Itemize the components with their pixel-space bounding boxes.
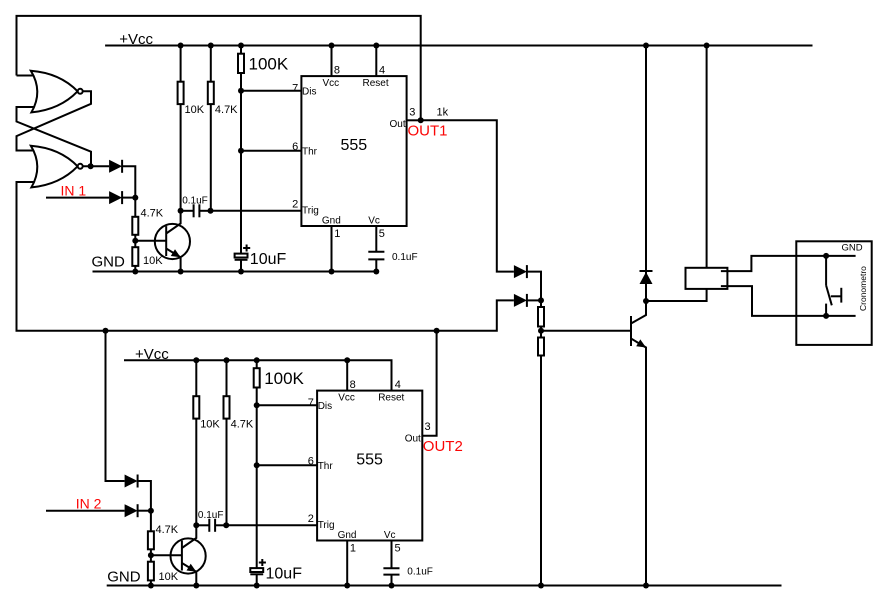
svg-text:6: 6 <box>308 455 314 467</box>
junction divider/gnd (right) <box>538 583 544 589</box>
wire OUT2 riser <box>422 331 436 436</box>
svg-text:IN 1: IN 1 <box>61 182 87 198</box>
junction OUT2 riser/latch line <box>434 328 440 334</box>
svg-text:2: 2 <box>292 199 298 211</box>
svg-text:8: 8 <box>350 379 356 391</box>
svg-text:5: 5 <box>395 542 401 554</box>
capacitor 10uF (top) polarized <box>235 245 251 260</box>
resistor 4.7K (bottom Vcc to trig) <box>224 396 230 418</box>
svg-text:0.1uF: 0.1uF <box>407 566 433 577</box>
wire Q2 base <box>151 554 182 556</box>
svg-text:GND: GND <box>842 242 863 253</box>
resistor 4.7K (Q1 base upper) <box>132 217 138 235</box>
wire divider vertical <box>540 300 542 585</box>
wire D4 to divider node <box>527 299 541 301</box>
junction rail/pin4 <box>373 43 379 49</box>
wire pin5 Vc (top) <box>375 226 377 252</box>
capacitor 10uF (bottom) polarized <box>250 559 266 574</box>
svg-text:OUT1: OUT1 <box>408 123 448 140</box>
junction pin5 cap/gnd rail (bottom) <box>389 583 395 589</box>
junction Q1 emitter/gnd <box>178 269 184 275</box>
junction rail/pin8 (bottom) <box>344 357 350 363</box>
wire 4.7K (top) vertical <box>210 46 212 211</box>
junction pin1/gnd rail (bottom) <box>344 583 350 589</box>
junction Dis/100K <box>238 88 244 94</box>
svg-text:GND: GND <box>92 254 126 271</box>
wire IN 2 input line <box>46 510 125 512</box>
svg-text:+Vcc: +Vcc <box>119 31 153 48</box>
resistor 4.7K (top Vcc to trig) <box>208 82 214 104</box>
wire pin6 Thr (bottom) <box>257 464 317 466</box>
wire pin5 cap to gnd (bottom) <box>391 575 393 586</box>
wire gnd rail (bottom) <box>107 585 782 587</box>
transistor Q1 collector <box>166 211 180 234</box>
junction rail/10K <box>178 43 184 49</box>
transistor Q3 emitter <box>631 339 646 586</box>
resistor 100K (top timing) <box>238 54 244 73</box>
svg-text:10K: 10K <box>185 104 205 116</box>
svg-text:8: 8 <box>334 64 340 76</box>
resistor 10K (Q2 base lower) <box>148 562 154 581</box>
svg-text:OUT2: OUT2 <box>423 438 463 455</box>
svg-text:1k: 1k <box>437 107 449 119</box>
junction collector/cap/10K <box>178 208 184 214</box>
wire gate U1B input B from OUT2 line <box>17 182 514 331</box>
svg-text:Trig: Trig <box>318 520 335 531</box>
svg-text:1: 1 <box>334 228 340 240</box>
svg-text:10K: 10K <box>159 571 179 583</box>
transistor Q1 emitter <box>166 249 180 272</box>
svg-text:3: 3 <box>409 107 415 119</box>
junction pin5 cap/gnd rail <box>373 269 379 275</box>
svg-text:Reset: Reset <box>363 78 389 89</box>
svg-text:555: 555 <box>356 451 383 468</box>
junction cap/trig/4.7K (bottom) <box>223 522 229 528</box>
svg-text:GND: GND <box>107 568 141 585</box>
wire 4.7K (bottom) vertical <box>226 360 228 525</box>
transistor Q3 emitter arrow <box>636 339 646 347</box>
resistor 100K (bottom timing) <box>254 368 260 387</box>
resistor 10K (Q1 base lower) <box>132 247 138 266</box>
wire gate U1A input A stub <box>17 75 37 77</box>
svg-text:6: 6 <box>292 141 298 153</box>
pushbutton actuator bar <box>840 288 842 303</box>
svg-text:5: 5 <box>379 228 385 240</box>
junction pin1/gnd rail <box>329 269 335 275</box>
wire gnd rail (top) <box>93 271 377 273</box>
svg-text:Vcc: Vcc <box>323 78 340 89</box>
junction D3/D4/R node <box>538 297 544 303</box>
diode D7 flyback (vertical) <box>640 271 653 284</box>
svg-text:100K: 100K <box>264 369 304 388</box>
svg-text:4.7K: 4.7K <box>156 524 179 536</box>
svg-text:Vcc: Vcc <box>338 392 355 403</box>
diode D1 (gate U1B output) <box>109 160 122 173</box>
wire flyback diode vertical <box>645 46 647 302</box>
wire relay contact upper <box>721 256 856 271</box>
wire pin4 Reset (top) <box>375 46 377 77</box>
wire +Vcc rail (top) <box>105 45 812 47</box>
wire pin2 Trig (bottom) <box>226 524 317 526</box>
svg-text:Vc: Vc <box>368 215 380 226</box>
junction 10K divider/gnd (top) <box>132 269 138 275</box>
wire latch line down to D5 <box>106 331 125 481</box>
svg-text:4: 4 <box>395 379 401 391</box>
wire D5 to IN2 node <box>138 481 151 511</box>
wire pin3 Out stub (top) <box>407 119 421 121</box>
svg-text:3: 3 <box>425 421 431 433</box>
transistor Q2 emitter arrow <box>187 564 197 572</box>
svg-text:+Vcc: +Vcc <box>135 346 169 363</box>
junction Dis/100K (bottom) <box>254 402 260 408</box>
wire pin2 Trig (top) <box>211 210 302 212</box>
wire 100K vertical (bottom) <box>256 360 258 568</box>
junction rail/100K <box>238 43 244 49</box>
wire cap right to trig <box>199 210 210 212</box>
wire IN 1 input line <box>46 197 109 199</box>
junction cap/trig/4.7K <box>208 208 214 214</box>
wire coil top to +Vcc <box>706 46 708 268</box>
junction Q3 emitter/gnd <box>643 583 649 589</box>
wire U1B output to diode D1 <box>83 165 109 167</box>
nor gate U1B <box>31 146 83 188</box>
transistor Q1 circle <box>155 224 190 259</box>
svg-text:7: 7 <box>308 397 314 409</box>
wire pin5 cap to gnd <box>375 259 377 271</box>
capacitor 0.1uF (top pin5) plates <box>368 252 384 260</box>
wire pin7 Dis (bottom) <box>257 404 317 406</box>
resistor 10K (bottom Vcc to collector) <box>193 396 199 418</box>
wire cap left to collector node (bottom) <box>196 524 209 526</box>
wire pin6 Thr (top) <box>241 150 301 152</box>
svg-text:0.1uF: 0.1uF <box>392 252 418 263</box>
junction U1B output node <box>88 163 94 169</box>
junction rail/pin8 <box>329 43 335 49</box>
diode D5 (latch feed) <box>125 475 138 488</box>
svg-text:Thr: Thr <box>302 146 318 157</box>
svg-text:IN 2: IN 2 <box>76 496 102 512</box>
pushbutton actuator <box>831 295 842 297</box>
svg-text:4.7K: 4.7K <box>141 208 164 220</box>
svg-text:Vc: Vc <box>384 530 396 541</box>
wire pin1 Gnd (top) <box>331 226 333 272</box>
junction Q2 base node <box>148 552 154 558</box>
svg-text:Trig: Trig <box>302 205 319 216</box>
junction rail/10K (bottom) <box>193 357 199 363</box>
svg-text:1: 1 <box>350 542 356 554</box>
nor gate U1A <box>31 71 83 113</box>
wire gate U1B output to U1A input B (cross-couple) <box>17 107 92 166</box>
transistor Q2 base bar <box>181 541 183 571</box>
junction Q1 base node <box>132 238 138 244</box>
junction collector/cap/10K (bottom) <box>193 522 199 528</box>
wire pin8 Vcc (bottom) <box>346 360 348 390</box>
svg-text:100K: 100K <box>249 55 289 74</box>
wire pin1 Gnd (bottom) <box>346 541 348 586</box>
wire coil bottom feed <box>646 289 707 301</box>
junction flyback/coil/collector <box>643 298 649 304</box>
wire node to R divider <box>134 198 136 272</box>
wire 10K pullup (bottom) vertical <box>195 360 197 525</box>
svg-text:Dis: Dis <box>302 87 316 98</box>
svg-text:7: 7 <box>292 82 298 94</box>
wire 10K pullup (top) vertical <box>180 46 182 211</box>
wire OUT1 to diode D3 <box>421 120 514 271</box>
junction switch bottom terminal <box>823 313 829 319</box>
wire gate U1A output to U1B input A (cross-couple) <box>17 91 92 150</box>
svg-text:10uF: 10uF <box>250 251 287 268</box>
svg-text:Thr: Thr <box>318 461 334 472</box>
junction Thr/100K (bottom) <box>254 462 260 468</box>
transistor Q2 collector <box>182 525 196 548</box>
junction 10K divider/gnd (bottom) <box>148 583 154 589</box>
svg-text:Out: Out <box>405 434 421 445</box>
wire pin8 Vcc (top) <box>331 46 333 77</box>
wire Q3 base <box>541 330 631 332</box>
junction rail/4.7K (bottom) <box>224 357 230 363</box>
resistor 4.7K (Q2 base upper) <box>148 531 154 549</box>
svg-text:555: 555 <box>341 137 368 154</box>
svg-text:4: 4 <box>379 64 385 76</box>
svg-text:0.1uF: 0.1uF <box>198 510 224 521</box>
pushbutton blade <box>826 285 832 305</box>
junction rail/4.7K <box>208 43 214 49</box>
transistor Q3 base bar <box>630 316 632 346</box>
svg-text:4.7K: 4.7K <box>215 104 238 116</box>
wire D3 to divider node <box>527 272 541 301</box>
wire D6 to node <box>138 510 151 512</box>
junction rail/flyback diode <box>643 43 649 49</box>
svg-text:10K: 10K <box>200 418 220 430</box>
wire node to R divider (bottom) <box>150 511 152 586</box>
svg-text:Reset: Reset <box>378 392 404 403</box>
wire Q1 base <box>135 240 166 242</box>
svg-text:4.7K: 4.7K <box>231 418 254 430</box>
wire 10uF to gnd (top) <box>240 260 242 272</box>
junction 10uF/gnd rail (bottom) <box>254 583 260 589</box>
junction Q3 base node <box>538 328 544 334</box>
junction OUT1 node <box>418 117 424 123</box>
wire 10uF to gnd (bottom) <box>256 574 258 585</box>
svg-text:Out: Out <box>390 119 406 130</box>
transistor Q1 base bar <box>165 226 167 256</box>
wire cap left to collector node <box>181 210 194 212</box>
junction switch top terminal <box>823 253 829 259</box>
svg-text:10uF: 10uF <box>266 566 303 583</box>
wire pin7 Dis (top) <box>241 90 301 92</box>
resistor R lower (Q3 base) <box>538 338 544 356</box>
chronometer box <box>796 241 871 345</box>
wire switch top lead <box>825 256 827 286</box>
wire 100K vertical (top) <box>240 46 242 254</box>
diode D4 (from OUT2) <box>514 294 527 307</box>
wire pin5 Vc (bottom) <box>391 541 393 569</box>
svg-text:Gnd: Gnd <box>338 530 357 541</box>
IC 555 (bottom) box <box>317 391 422 541</box>
junction Thr/100K <box>238 148 244 154</box>
svg-text:10K: 10K <box>143 255 163 267</box>
wire D1 cathode down to IN1 node <box>122 166 135 197</box>
IC 555 (top) box <box>301 76 406 226</box>
junction Q2 emitter/gnd <box>193 583 199 589</box>
diode D3 (from OUT1) <box>514 265 527 278</box>
junction IN2/D5/D6 node <box>148 508 154 514</box>
svg-text:2: 2 <box>308 513 314 525</box>
wire +Vcc rail (bottom) <box>124 360 392 390</box>
junction IN1/D1/D2 node <box>132 195 138 201</box>
capacitor 0.1uF (bottom trigger) plates <box>209 519 215 532</box>
junction latch line/D5 branch <box>103 328 109 334</box>
capacitor 0.1uF (bottom pin5) plates <box>383 568 399 574</box>
wire OUT1 feedback top border <box>17 16 421 120</box>
wire cap right to trig (bottom) <box>215 524 226 526</box>
relay coil K1 <box>686 268 728 289</box>
junction 10uF/gnd rail <box>238 269 244 275</box>
svg-text:Gnd: Gnd <box>322 215 341 226</box>
junction rail/coil <box>704 43 710 49</box>
junction rail/100K (bottom) <box>254 357 260 363</box>
transistor Q2 circle <box>171 538 206 573</box>
diode D2 (IN 1) <box>109 191 122 204</box>
wire relay contact lower <box>721 286 856 316</box>
svg-text:Dis: Dis <box>318 401 332 412</box>
transistor Q2 emitter <box>182 563 196 586</box>
diode D6 (IN 2) <box>125 504 138 517</box>
wire switch bottom lead <box>825 304 827 316</box>
svg-text:0.1uF: 0.1uF <box>182 196 208 207</box>
resistor 10K (top Vcc to collector) <box>178 82 184 104</box>
svg-text:Cronometro: Cronometro <box>858 266 868 311</box>
resistor R upper (Q3 base) <box>538 307 544 327</box>
transistor Q3 collector <box>631 301 646 324</box>
transistor Q1 emitter arrow <box>171 249 181 257</box>
capacitor 0.1uF (top trigger) plates <box>194 204 200 217</box>
wire D2 cathode to node <box>122 197 135 199</box>
